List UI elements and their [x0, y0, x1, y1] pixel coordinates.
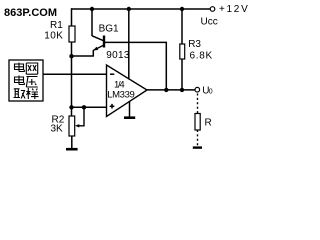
svg-text:LM339: LM339 [107, 90, 134, 101]
wire left drop from rail to R1 [71, 8, 73, 26]
wire R3 to output node [181, 59, 183, 90]
terminal Uo (open circle) [195, 87, 200, 92]
svg-text:R1: R1 [50, 20, 63, 31]
wire V+ pin to rail [127, 7, 131, 11]
wire node A down to + divider node (crosses sampling line, no connection) [71, 56, 73, 107]
svg-text:863P.COM: 863P.COM [4, 7, 57, 19]
ground under op-amp [124, 116, 135, 119]
CJK glyph qu (取) row3 [14, 89, 26, 99]
junction dot wiper tap [82, 105, 86, 109]
wire R1 bottom to node A [71, 42, 73, 56]
potentiometer R2 body [69, 116, 75, 136]
svg-text:6.8K: 6.8K [190, 50, 213, 61]
junction dot R3/output [180, 88, 184, 92]
wire emitter to node A [71, 50, 94, 56]
wire node down to R2 [71, 107, 73, 116]
wire dashed R to ground [197, 130, 199, 146]
op-amp U1 1/4 LM339 triangle [107, 65, 148, 117]
transistor Q1 BG1 9013: collector wire from rail [90, 7, 94, 11]
svg-text:BG1: BG1 [99, 24, 119, 35]
wire rail to R3 [181, 9, 183, 44]
potentiometer R2 wiper arrow [75, 124, 79, 127]
CJK glyph wang (网) row1 [26, 63, 37, 74]
ground under load R [193, 146, 202, 148]
svg-text:+12V: +12V [219, 4, 249, 15]
svg-text:Ucc: Ucc [201, 17, 218, 28]
wire dashed Uo to load R [197, 94, 199, 114]
transistor BG1 collector diagonal [92, 36, 104, 41]
CJK glyph ya (压) row2 [26, 77, 38, 88]
wire wiper: down then left into R2 [78, 107, 85, 126]
wire base feedback: bar right to corner then down to output node [105, 42, 166, 90]
resistor R load [195, 114, 200, 131]
wire R2 bottom to ground [71, 136, 73, 148]
svg-text:10K: 10K [44, 31, 63, 42]
transistor BG1 emitter diagonal [93, 45, 103, 50]
CJK glyph yang (样) row3 [26, 88, 38, 99]
resistor R1 [69, 26, 75, 42]
node A junction dot [69, 54, 73, 58]
junction dot feedback/output [164, 88, 168, 92]
terminal +12V (open circle) [210, 7, 215, 12]
op-amp plus sign [110, 104, 115, 109]
svg-text:9013: 9013 [106, 50, 130, 61]
op-amp minus sign [110, 73, 114, 75]
svg-text:0: 0 [209, 89, 213, 96]
CJK glyph dian (电) row2 [15, 76, 25, 85]
ground under R2 [66, 148, 78, 151]
wire V- pin down [129, 101, 131, 117]
resistor R3 pull-up [180, 7, 184, 11]
wire +12V top rail [72, 8, 211, 10]
wire output line [147, 89, 195, 91]
wire divider node to non-inverting input [72, 106, 107, 108]
svg-text:3K: 3K [51, 124, 64, 135]
transistor BG1 bar [103, 36, 105, 48]
svg-text:R3: R3 [188, 39, 201, 50]
block: mains voltage sampling box [9, 60, 43, 101]
svg-text:R: R [205, 118, 212, 129]
transistor BG1 emitter arrow [93, 47, 98, 51]
wire sampling box output to inverting input (crossover at x=71.5) [43, 73, 107, 75]
CJK glyph dian (电) row1 [15, 63, 25, 72]
resistor R3 body [180, 44, 185, 59]
node + divider junction dot [69, 105, 73, 109]
